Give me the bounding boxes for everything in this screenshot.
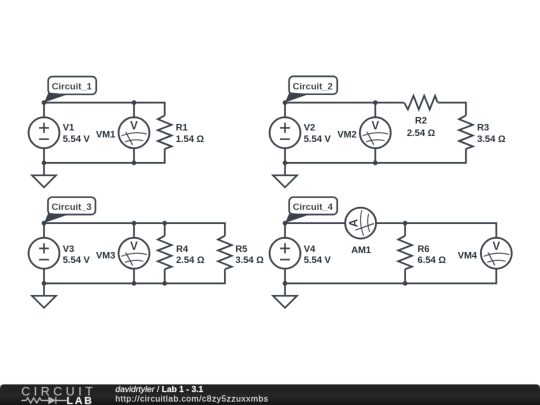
svg-text:V1: V1 — [63, 122, 74, 133]
svg-text:3.54 Ω: 3.54 Ω — [477, 133, 506, 144]
svg-text:LAB: LAB — [67, 395, 94, 405]
svg-text:R4: R4 — [176, 243, 189, 254]
svg-text:3.54 Ω: 3.54 Ω — [235, 254, 264, 265]
svg-text:5.54 V: 5.54 V — [304, 133, 332, 144]
svg-text:V2: V2 — [304, 122, 315, 133]
svg-text:R1: R1 — [176, 122, 188, 133]
svg-text:VM4: VM4 — [458, 250, 478, 261]
svg-text:http://circuitlab.com/c8zy5zzu: http://circuitlab.com/c8zy5zzuxxmbs — [115, 394, 268, 404]
svg-text:VM3: VM3 — [96, 250, 115, 261]
svg-text:V3: V3 — [63, 243, 74, 254]
svg-text:2.54 Ω: 2.54 Ω — [176, 254, 205, 265]
svg-text:R6: R6 — [418, 243, 430, 254]
svg-text:1.54 Ω: 1.54 Ω — [176, 133, 205, 144]
svg-text:Circuit_3: Circuit_3 — [52, 201, 92, 212]
svg-text:Circuit_1: Circuit_1 — [52, 81, 92, 92]
svg-text:VM1: VM1 — [96, 129, 115, 140]
svg-text:6.54 Ω: 6.54 Ω — [418, 254, 447, 265]
svg-text:V4: V4 — [304, 243, 316, 254]
svg-text:VM2: VM2 — [337, 129, 356, 140]
svg-text:R2: R2 — [415, 115, 427, 126]
svg-text:Circuit_4: Circuit_4 — [293, 201, 334, 212]
svg-text:R5: R5 — [235, 243, 247, 254]
svg-text:5.54 V: 5.54 V — [63, 133, 91, 144]
svg-text:5.54 V: 5.54 V — [304, 254, 332, 265]
svg-text:Circuit_2: Circuit_2 — [293, 81, 333, 92]
svg-text:R3: R3 — [477, 122, 489, 133]
svg-text:AM1: AM1 — [351, 244, 371, 255]
svg-text:2.54 Ω: 2.54 Ω — [407, 127, 436, 138]
svg-text:5.54 V: 5.54 V — [63, 254, 91, 265]
svg-text:davidrtyler / Lab 1 - 3.1: davidrtyler / Lab 1 - 3.1 — [115, 384, 203, 394]
